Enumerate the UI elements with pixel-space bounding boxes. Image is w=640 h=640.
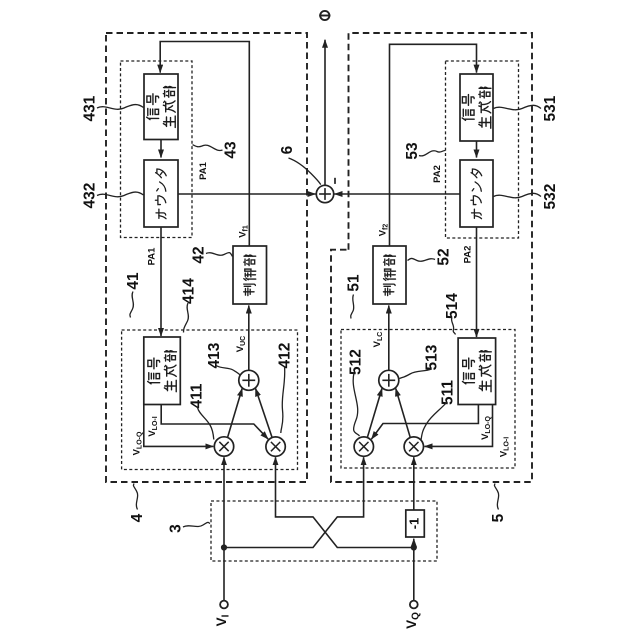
leader squiggle 532 xyxy=(494,193,542,197)
wire: multiplier 412 to adder 413 xyxy=(256,388,273,437)
wire: V_I input line up to multiplier 411 xyxy=(223,457,225,601)
text 信号生成部 in box 514 xyxy=(462,351,491,392)
leader squiggle 413 xyxy=(216,366,241,376)
svg-text:43: 43 xyxy=(223,141,240,159)
leader squiggle 41 xyxy=(130,292,134,318)
leader squiggle 6 xyxy=(289,158,321,185)
svg-text:PA1: PA1 xyxy=(198,161,209,179)
text 信号生成部 in box 531 xyxy=(462,87,491,128)
wire V_LC: adder 513 up into control 52 xyxy=(388,306,390,371)
wire: multiplier 512 to adder 513 xyxy=(367,388,382,437)
wire: -1 box output up to multiplier 511 xyxy=(413,457,415,510)
box: control unit 52 xyxy=(373,246,406,304)
multiplier 412 xyxy=(266,437,285,456)
svg-text:53: 53 xyxy=(404,142,421,160)
leader squiggle 412 xyxy=(281,367,285,434)
adder 6 xyxy=(316,185,333,202)
leader squiggle 52 xyxy=(408,258,436,261)
text 信号生成部 in box 431 xyxy=(147,86,176,127)
svg-text:-1: -1 xyxy=(407,518,422,530)
junction node on V_I line xyxy=(221,544,227,550)
wire V_LO-I: signal generator 514 to multiplier 511 xyxy=(425,405,493,447)
svg-text:432: 432 xyxy=(82,183,99,209)
multiplier 411 xyxy=(214,437,233,456)
svg-text:411: 411 xyxy=(189,383,206,408)
leader squiggle 414 xyxy=(184,303,189,333)
wire: signal generator 531 to counter 532 xyxy=(476,141,478,157)
dashed block 43 (oscillator unit left) xyxy=(121,61,193,238)
wire: crossover V_I branch to multiplier 512 xyxy=(224,457,364,547)
wire: multiplier 511 to adder 513 xyxy=(396,388,411,437)
svg-text:4: 4 xyxy=(129,513,146,522)
svg-text:42: 42 xyxy=(191,246,208,263)
dashed block 51 (mixer unit right) xyxy=(341,330,515,469)
wire: crossover V_Q branch to multiplier 412 xyxy=(276,457,414,547)
multiplier 512 xyxy=(354,437,373,456)
adder 413 xyxy=(239,370,259,390)
dashed block 4 (left branch unit) xyxy=(106,33,307,482)
svg-text:412: 412 xyxy=(277,343,294,369)
svg-text:414: 414 xyxy=(181,278,198,304)
junction node on V_Q line xyxy=(411,544,417,550)
leader squiggle 513 xyxy=(400,369,432,379)
text 制御部 in box 42 xyxy=(244,255,256,296)
leader squiggle 3 xyxy=(183,522,210,527)
box: signal generator 414 xyxy=(144,337,181,405)
svg-text:51: 51 xyxy=(346,274,363,292)
svg-text:531: 531 xyxy=(542,95,559,121)
box: counter 432 xyxy=(144,160,178,227)
dashed block 3 (input crossover unit) xyxy=(211,501,437,561)
text 制御部 in box 52 xyxy=(383,255,395,296)
output terminal (theta) xyxy=(319,11,330,20)
wire: signal generator 431 to counter 432 xyxy=(160,140,162,158)
dashed block 41 (mixer unit left) xyxy=(122,330,298,470)
wire: control 52 output riser, top run, drop into signal generator 531 xyxy=(390,44,477,246)
leader squiggle 4 xyxy=(133,484,137,510)
leader squiggle 43 xyxy=(193,145,223,151)
adder 513 xyxy=(379,370,399,390)
box: counter 532 xyxy=(460,160,493,227)
minus sign at adder 6 right input xyxy=(334,178,336,184)
wire: control 42 output riser, top run, drop into signal generator 431 xyxy=(160,42,249,247)
text 信号生成部 in box 414 xyxy=(148,351,177,392)
svg-text:PA1: PA1 xyxy=(147,247,158,265)
leader squiggle 512 xyxy=(353,373,359,436)
terminal V_I xyxy=(220,601,228,609)
text カウンタ in box 532 xyxy=(471,169,482,219)
multiplier 511 xyxy=(404,437,423,456)
leader squiggle 511 xyxy=(421,402,447,440)
leader squiggle 531 xyxy=(494,105,542,109)
svg-text:41: 41 xyxy=(125,272,142,290)
dashed block 53 (oscillator unit right) xyxy=(446,61,519,238)
leader squiggle 5 xyxy=(494,484,498,510)
wire: output of adder 6 up to terminal xyxy=(324,40,326,186)
leader squiggle 411 xyxy=(198,408,214,440)
svg-text:6: 6 xyxy=(279,145,296,154)
svg-text:3: 3 xyxy=(168,524,185,533)
wire PA1: counter 432 down to signal generator 414 xyxy=(160,227,162,336)
wire: V_Q input line up to -1 box xyxy=(413,539,415,601)
leader squiggle 42 xyxy=(206,253,233,257)
svg-text:514: 514 xyxy=(444,293,461,319)
wire V_LO-Q: signal generator 414 to multiplier 411 xyxy=(144,405,214,447)
svg-text:532: 532 xyxy=(542,184,559,210)
wire: multiplier 411 to adder 413 xyxy=(228,388,243,437)
box: signal generator 531 xyxy=(460,74,493,141)
leader squiggle 514 xyxy=(451,318,455,335)
svg-text:PA2: PA2 xyxy=(463,246,474,264)
box: signal generator 431 xyxy=(144,74,178,140)
svg-text:511: 511 xyxy=(440,380,457,405)
terminal V_Q xyxy=(410,601,418,609)
svg-text:413: 413 xyxy=(206,342,223,368)
svg-text:431: 431 xyxy=(82,95,99,121)
svg-text:52: 52 xyxy=(436,248,453,265)
wire V_LO-I: signal generator 414 to multiplier 412 xyxy=(161,405,268,440)
box: signal generator 514 xyxy=(458,338,496,405)
leader squiggle 431 xyxy=(97,105,144,110)
text カウンタ in box 432 xyxy=(155,169,166,219)
leader squiggle 53 xyxy=(419,150,446,155)
wire V_UC: adder 413 up into control 42 xyxy=(248,306,250,371)
svg-text:PA2: PA2 xyxy=(432,165,443,183)
box: control unit 42 xyxy=(233,246,267,304)
svg-text:512: 512 xyxy=(348,349,365,375)
wire: counter 432 output to adder 6 left input xyxy=(178,193,316,195)
svg-text:5: 5 xyxy=(490,513,507,522)
box: inverter -1 xyxy=(406,510,425,537)
wire: counter 532 output to adder 6 right input xyxy=(335,193,461,195)
wire PA2: counter 532 down to signal generator 514 xyxy=(476,227,478,337)
dashed block 5 (right branch unit) xyxy=(331,33,532,482)
leader squiggle 432 xyxy=(97,192,144,197)
wire V_LO-Q: signal generator 514 to multiplier 512 xyxy=(371,405,478,440)
svg-text:513: 513 xyxy=(424,344,441,370)
leader squiggle 51 xyxy=(351,295,354,319)
